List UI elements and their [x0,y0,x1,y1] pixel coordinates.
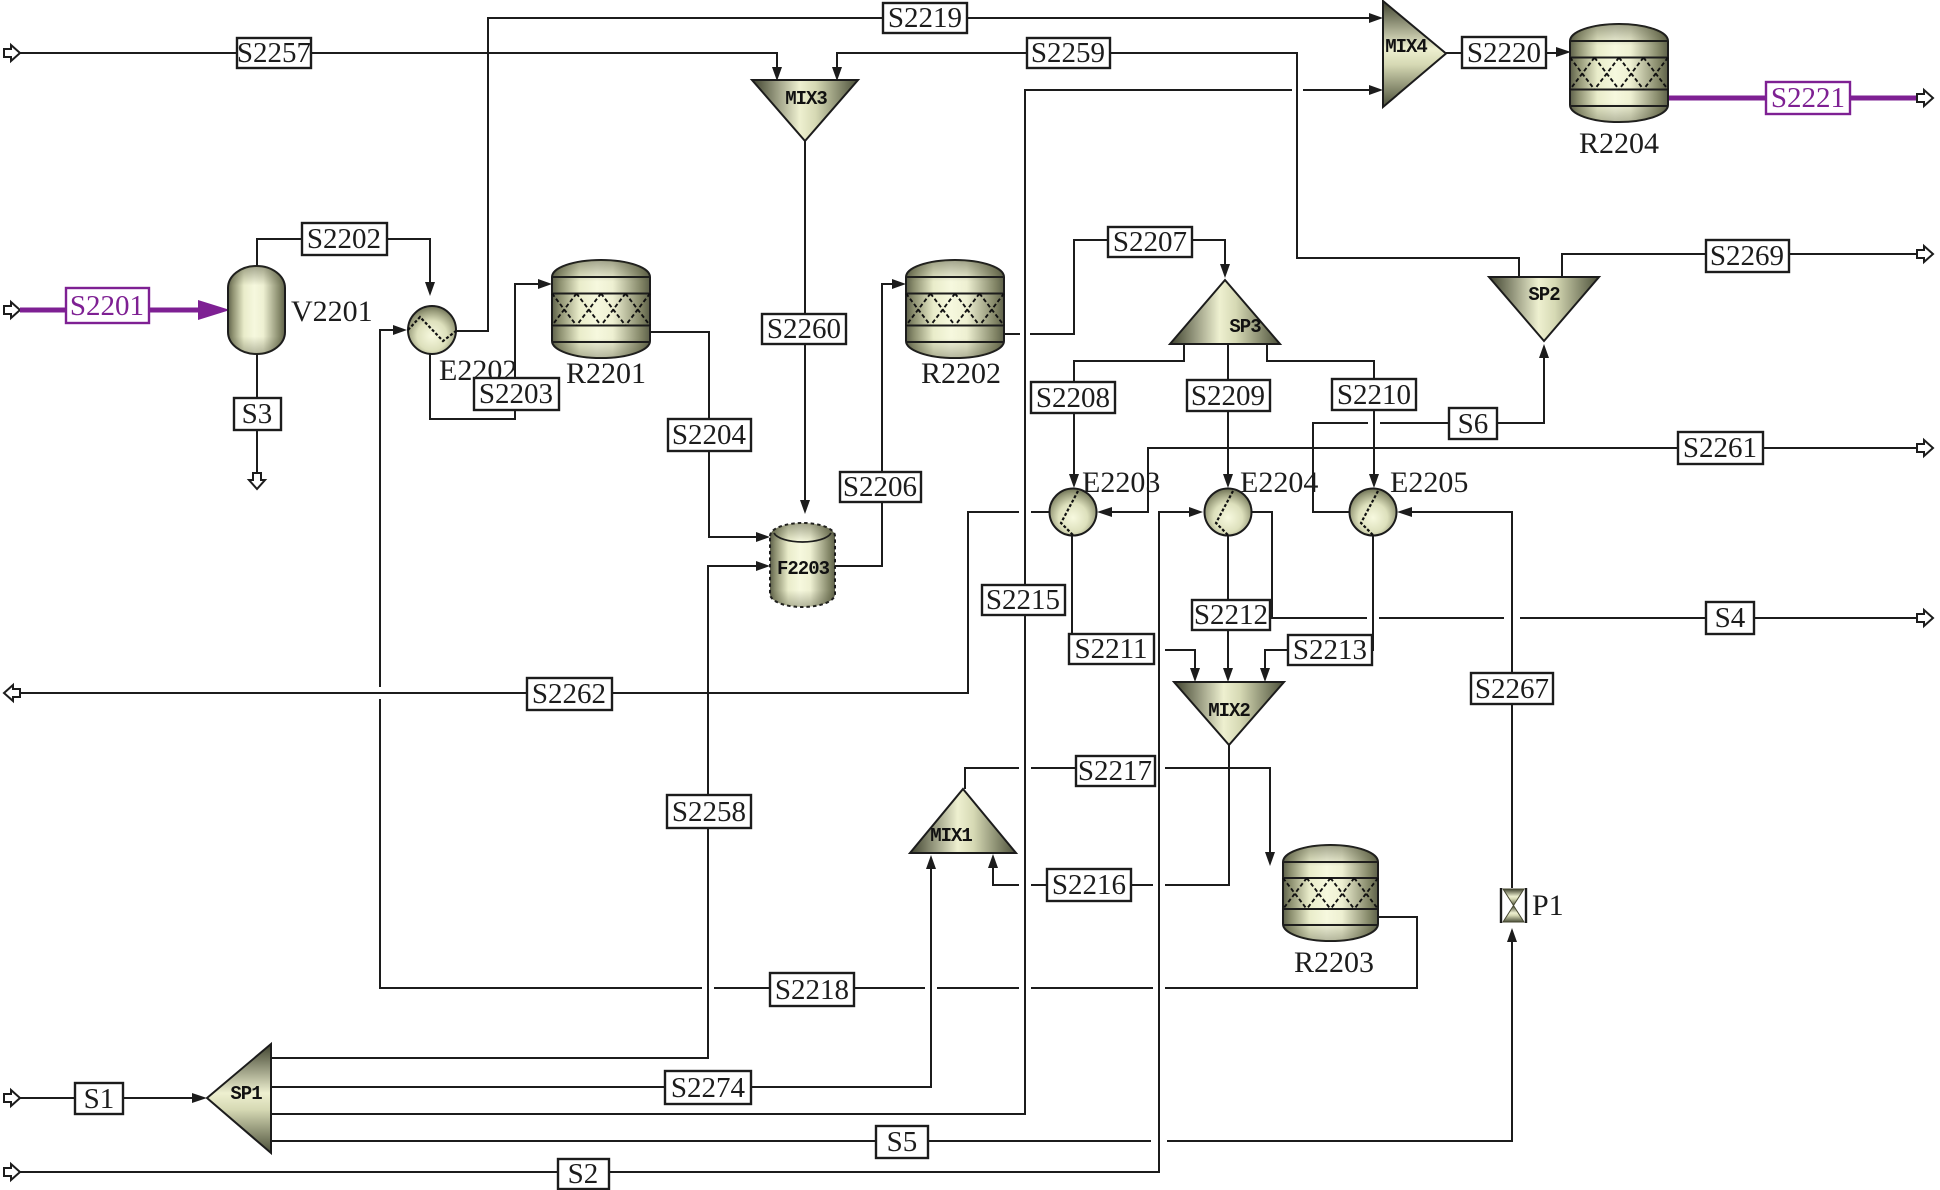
svg-text:SP3: SP3 [1229,316,1261,338]
label S2269 [1706,240,1789,272]
svg-text:S1: S1 [84,1083,115,1115]
svg-text:S6: S6 [1458,408,1489,440]
cooler E2204 [1205,489,1252,536]
svg-text:S2213: S2213 [1293,634,1367,666]
label S2260 [762,313,846,345]
wire S2204 R2201 to F2203 [650,332,770,542]
splitter SP3 [1170,280,1280,344]
label S2261 [1678,432,1763,464]
vessel V2201 flash drum [228,266,285,354]
svg-text:S2217: S2217 [1078,755,1152,787]
reactor R2203 [1283,845,1378,941]
svg-text:P1: P1 [1532,889,1564,922]
label S2217 [1076,755,1155,787]
label S2207 [1108,226,1192,258]
label S2267 [1471,673,1553,705]
wire S2209 SP3 to E2204 [1223,344,1233,488]
svg-text:E2204: E2204 [1240,466,1318,499]
svg-text:S2261: S2261 [1683,432,1757,464]
wire S5 SP1 to P1 [271,928,1517,1141]
svg-text:SP1: SP1 [230,1083,262,1105]
label S2212 [1192,599,1270,631]
flash drum F2203 [770,523,835,607]
wire S2274 SP1 to MIX1 [271,855,936,1087]
label S2213 [1288,634,1372,666]
cooler E2203 [1050,489,1097,536]
wire S2269 SP2 top outlet to right edge [1562,246,1933,277]
svg-text:S2258: S2258 [672,796,746,828]
label S2220 [1462,37,1546,69]
wire S2221 purple product from R2204 [1668,90,1933,106]
mixer MIX2 [1174,682,1284,745]
label S1 [75,1083,123,1115]
svg-text:S2: S2 [568,1158,599,1190]
wire S2202 V2201 to E2202 [257,239,435,296]
svg-text:S2209: S2209 [1191,380,1265,412]
svg-text:F2203: F2203 [777,558,830,580]
wire S2262 E2203 to left edge [4,512,1049,701]
label S2201 purple [66,288,149,323]
svg-text:S2206: S2206 [843,471,917,503]
svg-text:S2215: S2215 [986,584,1060,616]
label S2274 [665,1071,751,1104]
label S2211 [1069,633,1154,665]
label S2219 [883,2,967,34]
label S2210 [1332,379,1416,411]
svg-text:S2257: S2257 [237,37,311,69]
label S2257 [237,37,311,69]
label S2206 [840,471,921,503]
svg-text:S5: S5 [887,1126,918,1158]
svg-text:S2220: S2220 [1467,37,1541,69]
wire S4 E2204 to right edge [1252,512,1933,626]
label S2259 [1027,37,1110,69]
svg-text:S2219: S2219 [888,2,962,34]
reactor R2201 [552,260,650,358]
svg-text:S3: S3 [242,398,273,430]
svg-text:E2203: E2203 [1082,466,1160,499]
wire S2206 F2203 to R2202 [835,279,906,566]
wire S2261 junction to right edge and into E2203 [1097,440,1933,517]
label S3 [234,398,281,430]
reactor R2204 [1570,24,1668,122]
svg-text:MIX4: MIX4 [1385,36,1427,58]
svg-text:S2202: S2202 [307,223,381,255]
svg-text:S2218: S2218 [775,974,849,1006]
svg-text:S2259: S2259 [1031,37,1105,69]
wire S2259 SP2 to MIX3 [832,53,1519,277]
splitter SP1 [207,1044,271,1153]
svg-text:S2203: S2203 [479,378,553,410]
label S2209 [1187,380,1270,412]
mixer MIX1 [910,789,1016,853]
svg-text:MIX2: MIX2 [1208,700,1250,722]
mixer MIX3 [752,80,858,141]
label S2204 [668,419,751,451]
label S6 [1449,408,1497,440]
svg-text:S2267: S2267 [1475,673,1549,705]
label S2262 [527,678,612,710]
wire S2210 SP3 to E2205 [1267,344,1379,488]
svg-text:S4: S4 [1715,602,1746,634]
label S5 [876,1126,928,1158]
wire S2201 purple feed to V2201 [4,300,230,320]
svg-text:S2216: S2216 [1052,869,1126,901]
wire S2217 MIX1 to R2203 [965,768,1275,866]
valve P1 [1501,888,1526,923]
label S2 [558,1158,609,1190]
svg-text:S2274: S2274 [671,1072,746,1104]
svg-text:V2201: V2201 [291,295,373,328]
wire S2260 MIX3 to F2203 [800,141,810,514]
cooler E2205 [1350,489,1397,536]
svg-text:R2202: R2202 [921,357,1001,390]
label S2221 purple [1766,82,1850,114]
wire S2258 SP1 to F2203 [271,561,770,1058]
svg-text:S2204: S2204 [672,419,747,451]
wire S2218 R2203 to E2202 [380,325,1417,988]
label S2216 [1047,869,1131,901]
splitter SP2 [1489,277,1599,341]
wire S2220 MIX4 to R2204 [1446,47,1571,57]
wire S1 feed to SP1 [4,1090,207,1106]
svg-text:S2262: S2262 [532,678,606,710]
svg-text:S2221: S2221 [1771,82,1845,114]
svg-text:S2211: S2211 [1074,633,1147,665]
wire S2 left edge to E2204 [4,507,1203,1180]
label S2202 [302,223,387,255]
label S2208 [1031,382,1115,414]
svg-text:MIX3: MIX3 [785,88,827,110]
label S2218 [770,973,854,1006]
wire S2213 E2205 to MIX2 [1260,535,1373,682]
svg-text:R2201: R2201 [566,357,646,390]
svg-text:S2269: S2269 [1710,240,1784,272]
wire S2215 SP1 to MIX4 [271,85,1383,1114]
wire S2216 MIX2 to MIX1 [988,745,1229,885]
wire S2257 feed line into MIX3 [4,45,782,81]
label S2215 [982,584,1065,616]
label S2258 [667,795,751,828]
wire S2208 SP3 to E2203 [1069,344,1184,488]
wire S3 V2201 bottom outlet [249,354,265,489]
svg-text:SP2: SP2 [1528,284,1560,306]
svg-text:S2260: S2260 [767,313,841,345]
wire S6 E2205 to SP2 [1313,344,1549,512]
svg-text:MIX1: MIX1 [930,825,972,847]
mixer MIX4 [1383,1,1446,107]
heat-exchanger E2202 [408,306,456,354]
label S4 [1706,602,1754,634]
svg-text:S2201: S2201 [70,290,144,322]
wire S2203 E2202 to R2201 [430,279,552,419]
reactor R2202 [906,260,1004,358]
svg-text:R2203: R2203 [1294,946,1374,979]
wire S2211 E2203 to MIX2 [1072,535,1200,682]
svg-text:E2205: E2205 [1390,466,1468,499]
svg-text:S2207: S2207 [1113,226,1187,258]
wire S2219 E2202 to MIX4 [456,13,1383,331]
wire S2267 P1 to E2205 [1397,507,1512,888]
wire S2212 E2204 to MIX2 [1223,535,1233,682]
svg-text:S2212: S2212 [1194,599,1268,631]
label S2203 [474,378,559,410]
svg-text:R2204: R2204 [1579,127,1659,160]
svg-text:S2208: S2208 [1036,382,1110,414]
wire S2207 R2202 to SP3 [1004,240,1230,334]
svg-text:S2210: S2210 [1337,379,1411,411]
